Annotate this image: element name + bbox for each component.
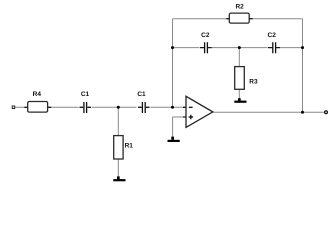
wire top feedback rail bbox=[173, 18, 303, 20]
resistor R3 bbox=[235, 67, 258, 90]
wire main input rail bbox=[15, 106, 186, 108]
ground (under R1) bbox=[113, 176, 125, 181]
wire R3 drop bbox=[238, 48, 240, 99]
capacitor C2 (left) bbox=[200, 32, 212, 53]
capacitor C2 (right) bbox=[268, 32, 280, 53]
output terminal bbox=[325, 111, 328, 114]
ground (under R3) bbox=[234, 98, 246, 103]
wire left feedback vertical bbox=[172, 19, 174, 108]
wire R1 drop bbox=[117, 107, 119, 176]
input terminal bbox=[12, 106, 15, 109]
ground (non-inverting input) bbox=[168, 137, 180, 142]
wire output rail bbox=[213, 111, 325, 113]
svg-text:C2: C2 bbox=[268, 32, 277, 39]
op-amp U1 bbox=[183, 96, 213, 127]
svg-text:R3: R3 bbox=[249, 78, 258, 85]
wire C2 rail bbox=[173, 47, 303, 49]
svg-text:C2: C2 bbox=[201, 32, 210, 39]
resistor R1 bbox=[114, 136, 134, 159]
svg-text:C1: C1 bbox=[137, 91, 146, 98]
svg-text:R2: R2 bbox=[235, 4, 244, 11]
capacitor C1 (first) bbox=[80, 91, 92, 113]
node B (feedback / C2 rail left) bbox=[171, 46, 174, 49]
node F (output / right vertical) bbox=[301, 111, 304, 114]
node A (junction main rail / R1) bbox=[117, 106, 120, 109]
node D (C2 rail / right vertical) bbox=[301, 46, 304, 49]
resistor R4 bbox=[24, 91, 51, 112]
node C (C2 rail / R3) bbox=[238, 46, 241, 49]
svg-text:R1: R1 bbox=[125, 143, 134, 150]
resistor R2 bbox=[226, 4, 252, 24]
capacitor C1 (second) bbox=[137, 91, 149, 113]
node E (inverting input junction) bbox=[171, 106, 174, 109]
svg-text:R4: R4 bbox=[33, 91, 42, 98]
wire right vertical bbox=[302, 19, 304, 113]
svg-text:C1: C1 bbox=[81, 91, 90, 98]
wire op-amp plus input bbox=[173, 117, 186, 137]
